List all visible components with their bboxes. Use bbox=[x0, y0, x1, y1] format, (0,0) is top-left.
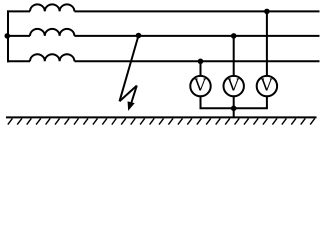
inductor L2 bbox=[30, 29, 74, 36]
node junction dot lightning on phase B bbox=[136, 33, 142, 39]
ground earth line bbox=[6, 116, 317, 118]
wire phase C bottom line bbox=[7, 60, 320, 62]
wire riser to voltmeter PV2 bbox=[233, 36, 235, 76]
node junction dot riser PV2 on phase B bbox=[231, 33, 237, 39]
node junction dot riser PV1 on phase C bbox=[198, 59, 204, 65]
wire drop from PV2 bbox=[233, 96, 235, 108]
lightning arrowhead bbox=[128, 102, 134, 110]
voltmeter PV1 circle bbox=[190, 76, 210, 96]
wire drop from PV3 bbox=[266, 96, 268, 108]
lightning surge stroke segment 2 bbox=[120, 86, 137, 102]
wire left vertical bus bbox=[7, 10, 9, 62]
wire riser to voltmeter PV3 bbox=[266, 11, 268, 76]
wire bottom bus bbox=[200, 107, 268, 109]
voltmeter PV1 label V bbox=[194, 79, 206, 91]
wire phase A top line bbox=[7, 10, 320, 12]
inductor L3 bbox=[30, 54, 74, 61]
inductor L1 bbox=[30, 4, 74, 11]
wire phase B middle line bbox=[7, 35, 320, 37]
node junction dot riser PV3 on phase A bbox=[264, 9, 270, 15]
lightning surge stroke segment 1 bbox=[120, 36, 139, 102]
wire riser to voltmeter PV1 bbox=[200, 61, 202, 76]
node junction dot left bus / phase B bbox=[5, 33, 11, 39]
voltmeter PV3 label V bbox=[261, 79, 273, 91]
wire drop from PV1 bbox=[200, 96, 202, 108]
voltmeter PV2 label V bbox=[227, 79, 239, 91]
ground hatching bbox=[8, 118, 315, 124]
wire earth stem bbox=[233, 108, 235, 117]
lightning surge stroke segment 3 bbox=[131, 86, 137, 105]
voltmeter PV2 circle bbox=[224, 76, 244, 96]
voltmeter PV3 circle bbox=[257, 76, 277, 96]
node junction dot earth stem on bus bbox=[231, 106, 237, 112]
